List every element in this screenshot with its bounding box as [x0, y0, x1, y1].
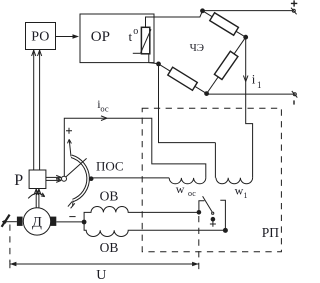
fixed contact with plus: [211, 217, 216, 222]
pot tap node: [89, 176, 94, 181]
potentiometer POS arc: [71, 155, 89, 202]
pot wiper arm: [66, 158, 87, 177]
node bottom: [204, 91, 209, 96]
resistor R3 (SW arm): [159, 64, 207, 94]
block OR (controlled object): [80, 14, 154, 63]
svg-text:ОР: ОР: [91, 29, 110, 45]
svg-text:ПОС: ПОС: [96, 158, 124, 173]
dashed line at motor left: [9, 225, 11, 263]
thermistor Rt: [141, 27, 149, 54]
field winding junction node: [82, 220, 87, 225]
svg-text:Д: Д: [32, 214, 42, 230]
svg-text:о: о: [133, 26, 138, 37]
svg-text:РП: РП: [262, 225, 280, 240]
svg-text:ЧЭ: ЧЭ: [190, 42, 204, 54]
shaft R-motor double line: [35, 189, 37, 208]
winding OV top: [84, 207, 199, 223]
dashed box RP: [142, 108, 281, 252]
winding OV bottom: [84, 222, 225, 237]
node top: [200, 8, 205, 13]
svg-text:РО: РО: [31, 30, 49, 45]
svg-text:ОВ: ОВ: [100, 240, 119, 255]
motor right wire: [56, 221, 84, 223]
wire bottom node to minus terminal: [207, 93, 294, 95]
shaft RO-R double line: [33, 50, 35, 170]
svg-text:ос: ос: [188, 189, 196, 198]
svg-text:w: w: [176, 182, 185, 196]
node right: [243, 35, 248, 40]
wiper pivot circle: [62, 176, 67, 181]
svg-text:1: 1: [244, 191, 248, 200]
wire ios feedback: [64, 118, 206, 178]
mechanical link R to wiper: [46, 176, 60, 178]
node left: [156, 62, 161, 67]
wire pot tap to wos: [91, 177, 169, 179]
relay contact pivot node: [197, 210, 202, 215]
block R (reducer): [29, 170, 46, 189]
wire thermistor top to bridge top node: [146, 11, 203, 28]
pot bottom lead with break marks: [72, 201, 74, 207]
svg-text:w: w: [235, 184, 244, 198]
wire top node to plus terminal: [203, 10, 293, 12]
minus terminal tick: [293, 100, 295, 104]
plus sign top right: [291, 0, 297, 6]
resistor R1 (NE arm): [203, 11, 246, 37]
minus label: [69, 216, 75, 218]
contact blade: [199, 201, 205, 213]
svg-text:ос: ос: [100, 103, 108, 113]
wire left node to w1: [159, 64, 216, 143]
svg-text:ОВ: ОВ: [100, 189, 119, 204]
node on lower wire: [223, 228, 228, 233]
right contact bracket: [220, 200, 225, 230]
wire i1 from right node down: [246, 37, 253, 178]
motor D: [23, 208, 50, 235]
plus label at pot: [66, 128, 72, 134]
winding wos: [169, 178, 206, 184]
resistor R2 (SE arm): [207, 37, 246, 93]
rotation arrow: [28, 193, 45, 198]
svg-text:t: t: [129, 29, 133, 44]
wire thermistor bottom to bridge left node: [149, 54, 159, 64]
pot top lead with arrow: [69, 140, 71, 157]
winding w1: [215, 143, 252, 184]
svg-text:1: 1: [257, 80, 262, 90]
dashed line from contact to U: [198, 216, 200, 274]
svg-text:Р: Р: [14, 172, 23, 189]
wire arrow RO to OR: [56, 36, 78, 38]
block RO (regulating organ): [26, 23, 56, 50]
motor left wire and anchor: [2, 221, 17, 223]
svg-text:U: U: [96, 268, 106, 283]
svg-text:i: i: [252, 71, 256, 86]
dimension U: [10, 263, 199, 265]
